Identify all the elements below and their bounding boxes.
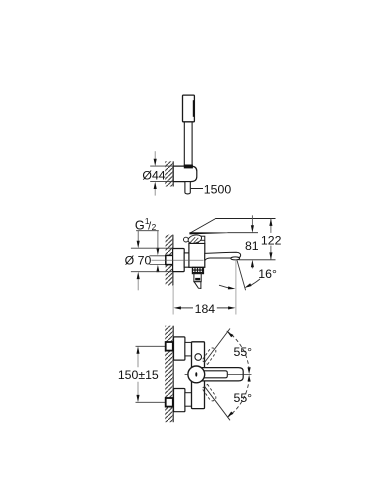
svg-text:55°: 55° bbox=[233, 345, 252, 359]
dim 81 arrows bbox=[251, 215, 254, 268]
svg-text:55°: 55° bbox=[233, 391, 252, 405]
angle leg 55 down bbox=[205, 386, 231, 420]
knurled hose nut bbox=[192, 267, 203, 273]
lever knuckle step bbox=[198, 236, 205, 243]
dim Ø70 extension lines bbox=[131, 247, 173, 249]
lever blade (side) bbox=[189, 219, 227, 235]
shower head bbox=[183, 95, 195, 122]
svg-text:G: G bbox=[135, 218, 145, 232]
svg-text:81: 81 bbox=[245, 239, 259, 253]
shower head spray stripe bbox=[193, 100, 195, 117]
spout aerator bbox=[231, 257, 240, 260]
svg-text:150±15: 150±15 bbox=[118, 368, 159, 382]
extension line spout outlet bbox=[239, 259, 276, 261]
centerline right of lever bbox=[227, 373, 251, 375]
top S-union body bbox=[174, 337, 185, 360]
svg-text:16°: 16° bbox=[258, 267, 277, 281]
G1/2 leader underline bbox=[136, 230, 159, 232]
bottom connector tube bbox=[185, 393, 192, 407]
bottom union wall square bbox=[166, 398, 173, 407]
ghost lever up (dashed) bbox=[202, 348, 216, 364]
mixer body (front) bbox=[192, 342, 205, 409]
label G 1/2 bbox=[135, 216, 157, 232]
G1/2 leader left drop w/ arrow bbox=[137, 231, 139, 241]
arc arrowhead bottom end bbox=[227, 412, 233, 417]
lever (front view) bbox=[200, 368, 243, 381]
extension line top union bbox=[136, 345, 166, 347]
wall (top view) bbox=[165, 161, 173, 186]
svg-text:Ø 70: Ø 70 bbox=[125, 253, 152, 267]
lever cap dome bbox=[184, 234, 203, 245]
16 deg right arc with arrow bbox=[244, 279, 260, 289]
axis centerline bbox=[152, 259, 204, 261]
outlet cone bbox=[194, 282, 201, 289]
extension line bottom union bbox=[136, 401, 166, 403]
dim 184 line with arrows bbox=[174, 306, 236, 309]
angle leg 55 up bbox=[205, 329, 231, 363]
ghost lever down (dashed) bbox=[202, 384, 216, 400]
dim Ø44 extension lines bbox=[150, 165, 173, 167]
G1/2 lower arrow bbox=[157, 271, 159, 272]
spout bbox=[205, 252, 241, 260]
shower hose bbox=[185, 182, 190, 194]
centerline left of pivot bbox=[185, 373, 188, 375]
top union wall square bbox=[166, 342, 173, 351]
dashed angle arc bottom bbox=[227, 378, 250, 418]
outlet tube dark ring bbox=[195, 278, 200, 281]
G1/2 leader right drop w/ arrow bbox=[157, 231, 159, 249]
extension lines of G1/2 nipple bbox=[150, 255, 166, 257]
shower holder bracket bbox=[173, 166, 197, 182]
connection neck bbox=[184, 253, 190, 267]
arc arrowhead top end bbox=[227, 332, 233, 337]
mixer body bbox=[189, 243, 205, 267]
svg-text:1500: 1500 bbox=[204, 183, 232, 197]
shower handle tube bbox=[184, 121, 192, 165]
svg-text:122: 122 bbox=[261, 233, 282, 247]
dim 150±15 line and arrows bbox=[136, 346, 139, 402]
vertical extension line from spout tip bbox=[235, 260, 237, 315]
extension line lever top bbox=[215, 218, 275, 220]
svg-text:Ø44: Ø44 bbox=[142, 169, 165, 183]
lever pivot circle bbox=[188, 366, 205, 383]
dim Ø44 arrow lines bbox=[154, 151, 156, 160]
arc arrowheads at centerline bbox=[248, 367, 251, 381]
wall (front view) bbox=[165, 326, 173, 423]
16 deg slant line bbox=[237, 260, 246, 290]
dim 122 line and arrows bbox=[269, 219, 272, 260]
outlet tube bbox=[194, 274, 201, 282]
bottom S-union body bbox=[174, 389, 185, 412]
temperature small circle bbox=[195, 354, 202, 361]
dim Ø70 lower arrow bbox=[137, 278, 139, 290]
svg-text:184: 184 bbox=[195, 302, 216, 316]
lever inner stem bbox=[200, 371, 227, 378]
handle connection nut bbox=[184, 165, 193, 169]
G1/2 nipple square bbox=[166, 255, 174, 264]
dashed angle arc top bbox=[227, 331, 250, 371]
wall (side view) bbox=[166, 235, 173, 286]
pivot center tick bbox=[195, 372, 197, 376]
leader line 1500 bbox=[191, 188, 203, 190]
16 deg left arc with arrow bbox=[219, 285, 236, 290]
dim 184 left extension bbox=[172, 286, 174, 315]
top connector tube bbox=[185, 342, 192, 356]
escutcheon flange bbox=[173, 249, 185, 272]
extension line lever bottom (81 top) bbox=[227, 232, 258, 234]
